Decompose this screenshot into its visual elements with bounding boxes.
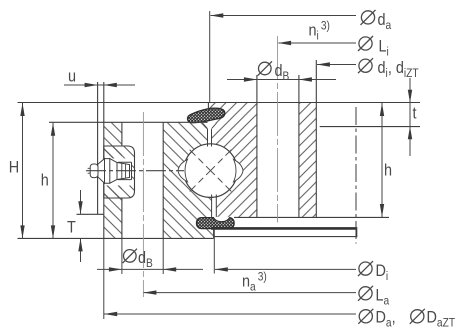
OD face outer line: [97, 82, 99, 214]
bottom seal: [197, 218, 235, 229]
bolt hole inner ring (white strip): [257, 103, 299, 218]
svg-text:Di: Di: [376, 262, 389, 283]
svg-text:h: h: [41, 171, 49, 189]
h dim left: [52, 123, 54, 239]
outer ring bottom: [18, 237, 214, 239]
outer ring lower right face: [213, 229, 215, 239]
inner ring top-left corner edge: [207, 103, 209, 113]
D_a leader: [104, 238, 356, 319]
bolt hole outer ring (white strip): [122, 122, 163, 238]
outer ring top: [49, 121, 208, 123]
svg-text:La: La: [376, 287, 390, 308]
top surface line / H extension: [18, 102, 421, 104]
svg-text:H: H: [9, 158, 19, 176]
arrowheads: u, H, h, T, d_a, L_i, d_i, d_B(top), t, h(right), d_B(bottom), D_i, L_a, D_a: [85, 83, 98, 87]
H dim: [22, 103, 24, 238]
main edges: [18, 60, 421, 238]
joint gap below ball: [212, 195, 217, 218]
raceway wing left: [178, 159, 188, 182]
d_i leader: [317, 64, 356, 66]
svg-text:h: h: [384, 162, 392, 180]
ball contact cross: [190, 150, 232, 192]
h dim right: [381, 103, 383, 217]
grease nipple boss: [104, 146, 135, 198]
nipple thread hole lines: [118, 162, 132, 179]
svg-text:t: t: [413, 104, 418, 122]
svg-text:u: u: [68, 67, 76, 85]
seal lip notch: [203, 123, 217, 131]
svg-text:dB: dB: [275, 62, 290, 83]
svg-text:T: T: [67, 219, 76, 237]
svg-text:Li: Li: [379, 37, 389, 58]
grease nipple: [117, 163, 130, 180]
svg-text:ni 3): ni 3): [309, 20, 331, 43]
joint gap above ball: [208, 123, 212, 146]
svg-text:da: da: [378, 11, 392, 32]
svg-text:di, diZT: di, diZT: [378, 59, 419, 80]
L_i leader: [278, 42, 356, 44]
svg-text:na 3): na 3): [242, 271, 267, 294]
dimension lines: [23, 11, 411, 319]
svg-text:dB: dB: [138, 249, 153, 270]
dB top dim: [227, 79, 336, 81]
t dim: [409, 78, 411, 156]
T dim: [80, 190, 82, 262]
top seal: [187, 108, 224, 123]
D_i leader: [214, 229, 356, 274]
T step line: [77, 213, 104, 215]
raceway wing right: [234, 159, 244, 182]
inner ring section: [208, 103, 316, 218]
L_a leader: [144, 292, 356, 294]
svg-text:DaZT: DaZT: [427, 309, 456, 330]
dB bottom dim: [97, 268, 203, 270]
bolt hole outer edges: [122, 122, 163, 238]
centerlines: [143, 36, 277, 297]
diameter symbols: [123, 10, 425, 324]
ball: [184, 144, 238, 198]
bore face: [315, 60, 317, 217]
OD face: [103, 82, 105, 238]
t lower extension: [320, 126, 420, 128]
svg-text:Da,: Da,: [376, 309, 396, 330]
dB bottom hole edge extensions: [122, 238, 163, 274]
d_a leader + ext: [210, 11, 356, 102]
inner ring bottom + h extension: [234, 216, 389, 218]
u dim: [64, 84, 135, 86]
outer ring section: [104, 122, 214, 238]
support lines: [211, 227, 357, 230]
bolt hole inner edges: [257, 75, 299, 217]
